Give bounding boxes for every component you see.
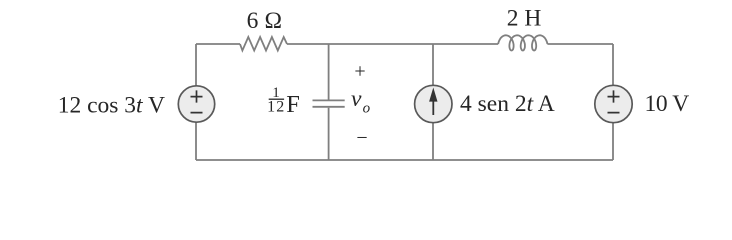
- voltage source V2 10V circle: [595, 85, 632, 122]
- wire capacitor branch lower: [328, 108, 330, 160]
- capacitor C plates: [313, 100, 345, 106]
- svg-text:12 cos 3t V: 12 cos 3t V: [58, 92, 165, 118]
- wire top-left segment: [196, 43, 240, 45]
- wire right branch upper: [612, 44, 614, 86]
- wire capacitor branch upper: [328, 44, 330, 100]
- wire left branch lower: [195, 122, 197, 160]
- svg-text:2 H: 2 H: [507, 6, 542, 32]
- inductor L 2H coil: [498, 35, 547, 50]
- wire bottom: [196, 159, 613, 161]
- current source I1 arrow: [429, 88, 437, 116]
- voltage source V1 12cos3t circle: [178, 86, 214, 122]
- wire current-source branch lower: [432, 123, 434, 161]
- svg-text:4 sen 2t A: 4 sen 2t A: [460, 91, 555, 117]
- label 1/12 fraction bar: [269, 98, 284, 100]
- svg-text:F: F: [286, 91, 300, 118]
- wire top-middle segment: [287, 43, 498, 45]
- svg-text:6 Ω: 6 Ω: [247, 8, 283, 34]
- wire top-right segment: [547, 43, 613, 45]
- svg-text:−: −: [356, 127, 367, 149]
- current source I1 4sen2t circle: [415, 85, 452, 122]
- svg-text:10 V: 10 V: [645, 91, 690, 117]
- svg-text:+: +: [354, 61, 365, 83]
- svg-text:12: 12: [267, 99, 285, 116]
- wire right branch lower: [612, 123, 614, 161]
- svg-text:vo: vo: [351, 86, 371, 117]
- resistor R 6ohm zigzag: [240, 37, 287, 51]
- voltage source V2 plus-minus: [608, 90, 620, 112]
- wire left branch upper: [195, 44, 197, 86]
- wire current-source branch upper: [432, 44, 434, 86]
- voltage source V1 plus-minus: [191, 90, 203, 112]
